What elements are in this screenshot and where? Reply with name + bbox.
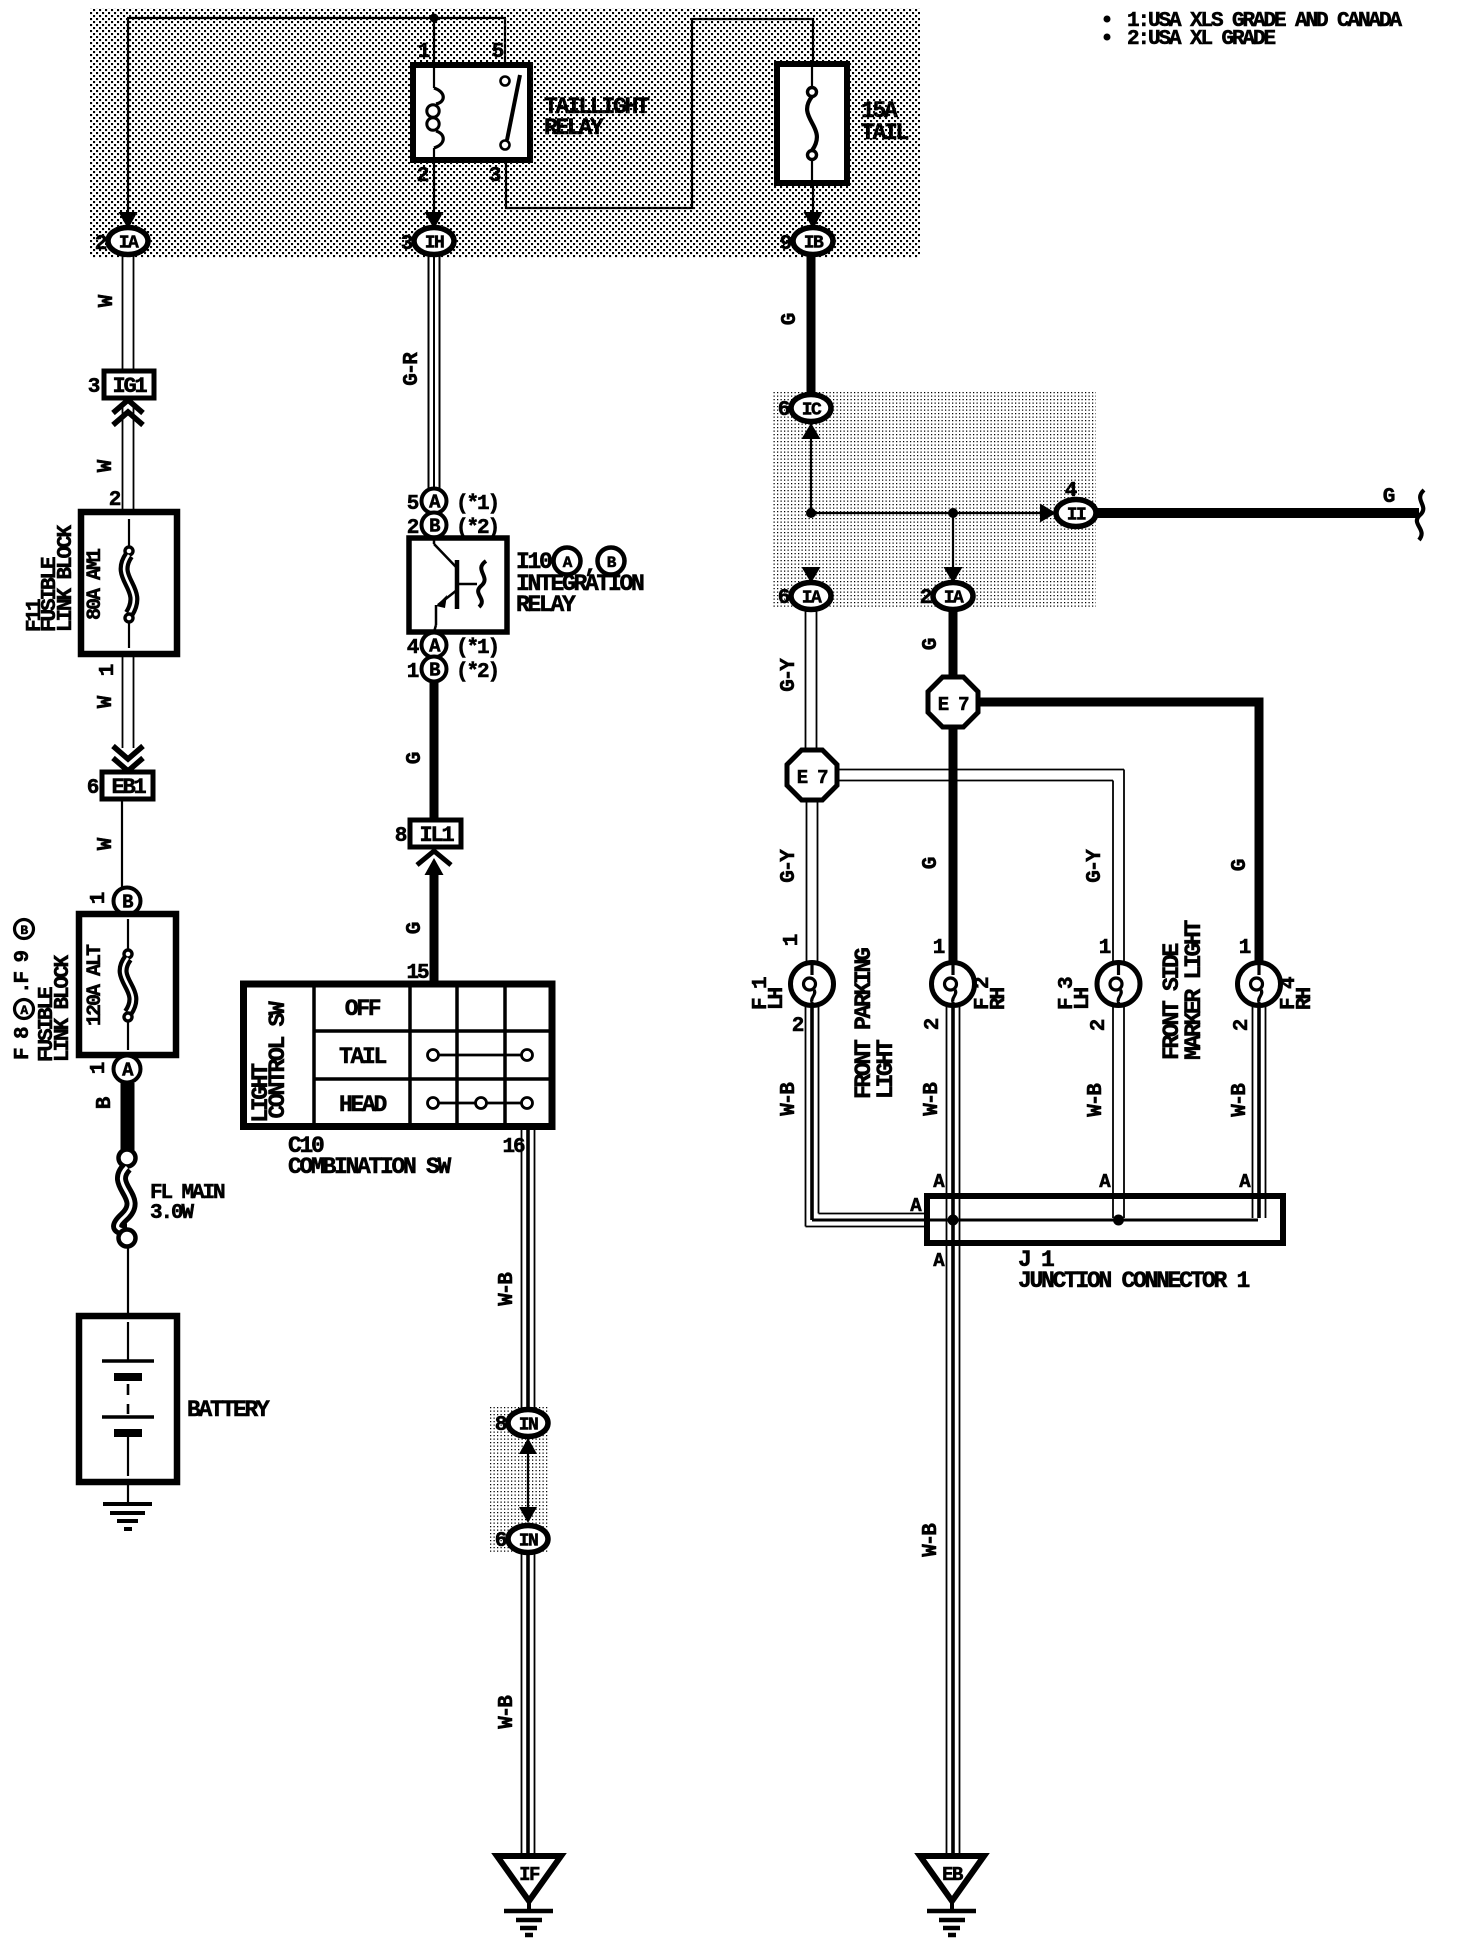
wire battery to ground	[127, 1482, 129, 1504]
front parking light F1 LH	[791, 963, 834, 1006]
wire G-Y E7 to F1	[806, 800, 808, 962]
svg-text:RELAY: RELAY	[544, 115, 604, 141]
arrow right into II	[1040, 504, 1056, 523]
svg-text:IG1: IG1	[112, 374, 147, 399]
connector 8 IL1	[410, 820, 461, 847]
node branch left	[806, 508, 816, 518]
svg-text:G: G	[404, 752, 427, 764]
svg-text:B: B	[607, 554, 617, 572]
svg-text:IA: IA	[802, 589, 822, 609]
svg-text:1: 1	[407, 661, 419, 684]
wire W IG1 to fusible link block F11	[122, 404, 124, 513]
wire G integration relay to IL1	[430, 682, 439, 820]
pin circle B	[114, 888, 141, 915]
harness break symbol	[1417, 490, 1424, 540]
svg-text:3: 3	[401, 233, 413, 256]
svg-text:W-B: W-B	[1229, 1083, 1252, 1117]
svg-text:5: 5	[492, 41, 504, 64]
svg-text:2: 2	[920, 587, 932, 610]
svg-text:W-B: W-B	[1085, 1083, 1108, 1117]
svg-text:IL1: IL1	[419, 823, 454, 848]
wire IC down to branch node	[810, 423, 812, 513]
arrow down into 6 IN	[519, 1507, 537, 1523]
arrow into connector IB	[804, 212, 823, 229]
wire F3 inside J1	[1112, 1196, 1114, 1218]
svg-text:B: B	[429, 660, 440, 682]
svg-text:1: 1	[88, 892, 111, 904]
svg-text:IH: IH	[425, 234, 444, 254]
svg-text:6: 6	[87, 777, 99, 800]
integration relay pin 2 (B) (*2)	[422, 513, 447, 538]
svg-text:LINK BLOCK: LINK BLOCK	[52, 954, 75, 1062]
svg-text:COMBINATION SW: COMBINATION SW	[288, 1154, 452, 1180]
svg-text:LH: LH	[1072, 987, 1095, 1010]
svg-text:4: 4	[407, 637, 419, 660]
wire relay pin 2 to connector IH	[433, 160, 435, 214]
svg-text:120A ALT: 120A ALT	[84, 944, 107, 1026]
battery internal lead bottom	[127, 1437, 129, 1476]
J1 internal bus	[930, 1219, 1258, 1222]
battery internal lead top	[127, 1322, 129, 1361]
ground IF	[497, 1856, 561, 1901]
wire G E7 to F2	[949, 727, 958, 962]
arrow into 6 IA	[802, 567, 821, 583]
svg-text:2: 2	[792, 1015, 804, 1038]
connector E7 (right)	[928, 677, 978, 727]
combination switch column divider 1	[312, 984, 316, 1126]
fusible link block F8/F9 box	[79, 914, 176, 1055]
svg-text:IN: IN	[519, 1416, 538, 1436]
combination switch column divider 2	[408, 984, 412, 1126]
svg-text:G: G	[920, 638, 943, 650]
front side marker light F4 RH	[1238, 963, 1281, 1006]
connector 6 IN	[508, 1526, 548, 1553]
fusible link 80A AM1 element	[128, 519, 130, 546]
svg-text:3: 3	[88, 376, 100, 399]
node junction at relay pin 1 feed	[430, 14, 439, 23]
arrow into connector IA	[119, 212, 138, 229]
front side marker light F3 LH	[1097, 963, 1140, 1006]
svg-text:2: 2	[417, 165, 429, 188]
svg-text:9: 9	[780, 233, 792, 256]
wire F4 inside J1	[1252, 1196, 1254, 1218]
svg-text:1: 1	[88, 1062, 111, 1074]
battery plate short bottom	[114, 1429, 142, 1437]
svg-text:G-R: G-R	[401, 352, 424, 386]
svg-text:W-B: W-B	[920, 1523, 943, 1557]
svg-text:MARKER LIGHT: MARKER LIGHT	[1181, 919, 1207, 1060]
legend note 1	[1104, 16, 1111, 23]
wire G from II to harness break	[1096, 508, 1419, 518]
wire relay pin 3 to 15A TAIL fuse	[506, 19, 813, 208]
svg-text:2: 2	[95, 233, 107, 256]
battery plate long top	[102, 1359, 154, 1363]
svg-text:IA: IA	[944, 589, 964, 609]
svg-text:.F 9: .F 9	[12, 950, 35, 994]
combination switch HEAD contacts	[428, 1098, 439, 1109]
svg-text:G: G	[920, 857, 943, 869]
svg-text:6: 6	[495, 1530, 507, 1553]
legend note 2	[1104, 34, 1111, 41]
svg-text:3: 3	[489, 165, 501, 188]
arrow up into IC	[802, 423, 821, 439]
svg-text:B: B	[429, 516, 440, 538]
svg-text:1: 1	[1239, 937, 1251, 960]
combination switch row divider 2	[314, 1077, 552, 1081]
wire W-B J1 to ground EB	[946, 1243, 948, 1856]
wire between IN connectors	[527, 1438, 529, 1508]
connector 3 IH	[414, 228, 454, 255]
svg-text:(*2): (*2)	[456, 661, 498, 684]
svg-text:E 7: E 7	[938, 694, 969, 716]
taillight relay coil	[433, 65, 435, 88]
svg-text:F 8: F 8	[12, 1027, 35, 1060]
wire W-B from F4	[1252, 1006, 1254, 1196]
svg-text:B: B	[20, 923, 28, 938]
connector 2 IA	[108, 228, 148, 255]
svg-text:15: 15	[406, 962, 429, 985]
connector 3 IG1	[104, 371, 154, 398]
wire G E7 to F4	[978, 702, 1259, 962]
wire to relay pin 1	[433, 18, 435, 65]
svg-text:1: 1	[1099, 937, 1111, 960]
svg-text:2: 2	[1088, 1019, 1111, 1031]
connector 6 EB1	[102, 772, 153, 799]
svg-text:RELAY: RELAY	[516, 592, 576, 618]
fuse 15A TAIL element	[808, 88, 817, 97]
wire branch down to connector IA right	[952, 513, 954, 584]
svg-text:2: 2	[109, 489, 121, 512]
wire B to FL MAIN	[121, 1083, 135, 1150]
svg-text:(*1): (*1)	[456, 637, 498, 660]
svg-text:(*1): (*1)	[456, 493, 498, 516]
integration relay U I10 box	[409, 538, 507, 632]
svg-text:IB: IB	[804, 234, 824, 254]
svg-text:2:USA XL GRADE: 2:USA XL GRADE	[1127, 28, 1276, 51]
taillight relay box	[413, 65, 530, 160]
svg-text:EB: EB	[942, 1864, 963, 1886]
junction connector J1 box	[927, 1196, 1283, 1243]
svg-text:BATTERY: BATTERY	[187, 1397, 270, 1423]
battery box	[79, 1316, 177, 1482]
wire G-Y connector IA to E7 (F1)	[805, 610, 807, 751]
taillight relay switch contact top (pin 5)	[501, 77, 510, 86]
wire W-B combination switch to IN	[521, 1126, 523, 1410]
front parking light F2 RH	[932, 963, 975, 1006]
combination switch TAIL contacts	[428, 1050, 439, 1061]
svg-text:G-Y: G-Y	[778, 658, 801, 692]
pin circle A	[114, 1056, 141, 1083]
svg-text:8: 8	[395, 825, 407, 848]
battery plate long bottom	[102, 1415, 154, 1419]
connector E7 (left)	[787, 750, 837, 800]
svg-text:2: 2	[1231, 1019, 1254, 1031]
node J1 bus at F2	[948, 1215, 959, 1226]
harness shading region (top band)	[90, 8, 920, 258]
svg-text:8: 8	[495, 1414, 507, 1437]
combination switch column divider 3	[455, 984, 459, 1126]
fusible link FL MAIN element	[118, 1167, 132, 1230]
wire W F11 to EB1	[122, 654, 124, 748]
ground below battery	[103, 1502, 152, 1506]
fusible link 120A ALT element	[127, 919, 129, 949]
connector 4 II	[1056, 500, 1096, 527]
svg-text:OFF: OFF	[345, 996, 381, 1022]
svg-text:6: 6	[778, 587, 790, 610]
arrow up into IN	[519, 1438, 537, 1454]
svg-text:A: A	[563, 554, 573, 572]
taillight relay switch contact bottom (pin 3)	[501, 141, 510, 150]
svg-text:4: 4	[1065, 480, 1077, 503]
connector 6 IC	[791, 395, 831, 422]
wire W-B from F3	[1112, 1006, 1114, 1196]
svg-text:W-B: W-B	[778, 1082, 801, 1116]
svg-text:G: G	[1383, 486, 1395, 509]
svg-text:1: 1	[418, 41, 430, 64]
svg-text:G: G	[779, 313, 802, 325]
battery dashed center line	[127, 1384, 130, 1414]
svg-text:LINK BLOCK: LINK BLOCK	[55, 524, 78, 632]
svg-text:1: 1	[97, 664, 120, 676]
combination switch C10 box	[244, 984, 553, 1127]
svg-text:EB1: EB1	[111, 775, 146, 800]
arrow into 2 IA	[944, 567, 963, 583]
integration relay pin 1 (B) (*2)	[422, 657, 447, 682]
wire W from connector IA up and right to relay	[127, 19, 129, 215]
fusible link FL MAIN terminal top	[119, 1150, 136, 1167]
wire W-B through J1 (F2)	[946, 1196, 948, 1243]
svg-text:1: 1	[933, 937, 945, 960]
taillight relay switch blade	[507, 75, 520, 140]
integration relay pin 4 (A) (*1)	[422, 633, 447, 658]
svg-text:TAIL: TAIL	[861, 120, 909, 146]
wire branch horizontal to II	[811, 512, 1040, 514]
svg-text:JUNCTION CONNECTOR 1: JUNCTION CONNECTOR 1	[1018, 1268, 1250, 1294]
svg-text:II: II	[1067, 506, 1086, 526]
wire FL MAIN to battery	[127, 1247, 129, 1316]
svg-text:2: 2	[922, 1018, 945, 1030]
svg-text:A: A	[20, 1003, 28, 1018]
wire G connector IB to IC	[807, 255, 816, 395]
svg-text:80A AM1: 80A AM1	[84, 548, 107, 620]
svg-text:G: G	[1229, 859, 1252, 871]
svg-text:IF: IF	[519, 1864, 540, 1886]
svg-text:IA: IA	[119, 234, 139, 254]
wire G-R connector IH to integration relay	[428, 255, 430, 488]
svg-text:1: 1	[781, 934, 804, 946]
wire G connector IA to E7 (F2)	[949, 610, 958, 677]
svg-text:LIGHT: LIGHT	[873, 1039, 899, 1099]
svg-text:3.0W: 3.0W	[150, 1202, 195, 1225]
svg-text:6: 6	[778, 399, 790, 422]
fusible link FL MAIN terminal bottom	[119, 1230, 136, 1247]
svg-text:5: 5	[407, 493, 419, 516]
wire W-B from F2	[946, 1006, 948, 1196]
svg-text:CONTROL SW: CONTROL SW	[265, 1001, 291, 1119]
svg-text:G-Y: G-Y	[1084, 849, 1107, 883]
battery plate short top	[114, 1373, 142, 1381]
wire W-B IN to ground IF	[521, 1554, 523, 1856]
combination switch column divider 4	[503, 984, 507, 1126]
svg-text:IN: IN	[519, 1532, 538, 1552]
splice chevrons above EB1	[113, 746, 143, 759]
svg-text:W-B: W-B	[496, 1272, 519, 1306]
svg-text:G: G	[404, 922, 427, 934]
svg-text:E 7: E 7	[797, 767, 828, 789]
svg-text:TAIL: TAIL	[339, 1044, 387, 1070]
svg-text:W-B: W-B	[921, 1082, 944, 1116]
combination switch row divider 1	[314, 1029, 552, 1033]
wire to relay pin 5	[504, 18, 506, 77]
svg-text:W-B: W-B	[496, 1695, 519, 1729]
harness shading region (right middle)	[773, 392, 1096, 609]
svg-text:RH: RH	[988, 987, 1011, 1010]
connector 8 IN	[508, 1410, 548, 1437]
harness shading region (IN connector)	[490, 1407, 549, 1554]
fuse 15A TAIL box	[777, 64, 847, 183]
node J1 bus at F3	[1113, 1215, 1124, 1226]
integration relay pin 5 (A) (*1)	[422, 489, 447, 514]
svg-text:RH: RH	[1294, 987, 1317, 1010]
splice chevrons below IG1	[113, 400, 143, 413]
svg-text:HEAD: HEAD	[339, 1092, 387, 1118]
connector 6 IA	[791, 583, 831, 610]
wire fuse to connector IB	[812, 183, 814, 214]
svg-text:G-Y: G-Y	[778, 849, 801, 883]
fusible link block F11 box	[81, 512, 177, 654]
wire W-B from F1	[805, 1006, 807, 1214]
arrow up into IL1	[425, 858, 444, 875]
node branch middle	[948, 508, 958, 518]
svg-text:IC: IC	[802, 401, 822, 421]
connector 2 IA	[933, 583, 973, 610]
connector 9 IB	[793, 228, 833, 255]
wire W EB1 to fusible link block	[121, 799, 123, 888]
ground EB	[920, 1856, 984, 1901]
wire G to combination switch pin 15	[430, 870, 439, 983]
wire G-Y E7 to F3	[837, 769, 1124, 771]
splice chevron below IL1	[417, 851, 451, 865]
svg-text:LH: LH	[766, 987, 789, 1010]
arrow into connector IH	[425, 212, 444, 229]
transistor inside integration relay	[433, 538, 436, 544]
wire W connector IA to IG1	[122, 255, 124, 371]
svg-text:B: B	[122, 892, 133, 914]
